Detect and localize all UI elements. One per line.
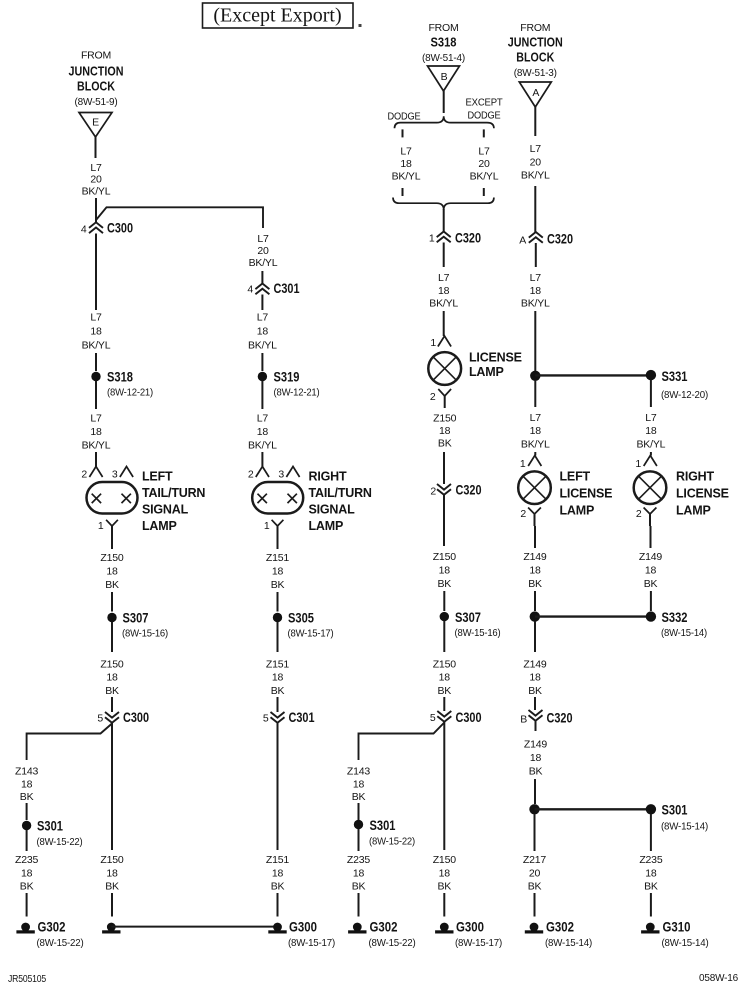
wire bbox=[650, 591, 652, 611]
svg-text:Z149: Z149 bbox=[523, 659, 546, 671]
pin 2 entry bbox=[256, 467, 269, 478]
pin 3 entry bbox=[286, 467, 299, 478]
wire bbox=[534, 779, 536, 804]
svg-text:(8W-15-14): (8W-15-14) bbox=[661, 627, 707, 639]
wire to S301 bbox=[535, 808, 651, 810]
svg-text:S301: S301 bbox=[662, 802, 688, 818]
splice S305 bbox=[273, 613, 282, 622]
svg-text:(8W-51-3): (8W-51-3) bbox=[514, 67, 557, 79]
wire branch to S301 left bbox=[27, 724, 112, 761]
svg-text:20: 20 bbox=[257, 245, 269, 257]
wire bbox=[261, 452, 263, 467]
svg-text:SIGNAL: SIGNAL bbox=[309, 503, 356, 517]
wire bbox=[534, 526, 536, 548]
splice junction bbox=[529, 804, 539, 814]
svg-text:Z150: Z150 bbox=[100, 659, 123, 671]
svg-text:20: 20 bbox=[478, 158, 490, 170]
ground G310 bbox=[646, 923, 655, 932]
wire bbox=[261, 353, 263, 371]
svg-text:B: B bbox=[441, 71, 448, 83]
svg-text:Z235: Z235 bbox=[15, 854, 38, 866]
svg-text:18: 18 bbox=[645, 564, 657, 576]
title box bbox=[203, 3, 354, 28]
wire bbox=[534, 452, 536, 456]
connector triangle B bbox=[428, 66, 460, 91]
pin 1 entry bbox=[644, 456, 657, 467]
svg-text:1: 1 bbox=[430, 337, 436, 349]
svg-text:BK/YL: BK/YL bbox=[521, 298, 550, 310]
svg-text:RIGHT: RIGHT bbox=[309, 470, 347, 484]
svg-text:1: 1 bbox=[264, 520, 270, 532]
wire bbox=[261, 271, 263, 283]
wire bbox=[95, 381, 97, 409]
connector C320 pin B bbox=[529, 710, 543, 721]
svg-text:L7: L7 bbox=[530, 272, 542, 284]
svg-text:18: 18 bbox=[439, 425, 451, 437]
svg-text:Z151: Z151 bbox=[266, 659, 289, 671]
svg-text:JUNCTION: JUNCTION bbox=[508, 36, 563, 50]
svg-text:A: A bbox=[519, 235, 526, 247]
svg-text:(8W-15-16): (8W-15-16) bbox=[122, 628, 168, 640]
svg-text:S319: S319 bbox=[274, 369, 300, 385]
wire bbox=[26, 893, 28, 917]
svg-text:BK: BK bbox=[437, 578, 451, 590]
wire bbox=[650, 380, 652, 407]
svg-text:BK/YL: BK/YL bbox=[248, 439, 277, 451]
svg-text:(8W-51-9): (8W-51-9) bbox=[75, 96, 118, 108]
svg-text:058W-16: 058W-16 bbox=[699, 972, 738, 984]
svg-text:18: 18 bbox=[439, 672, 451, 684]
wire bbox=[26, 803, 28, 820]
splice S307 bbox=[440, 612, 449, 621]
period mark bbox=[359, 24, 362, 27]
svg-text:Z150: Z150 bbox=[433, 551, 456, 563]
svg-text:BLOCK: BLOCK bbox=[77, 80, 115, 94]
wire to S332 bbox=[535, 615, 651, 617]
svg-text:1: 1 bbox=[429, 233, 435, 245]
svg-text:E: E bbox=[92, 117, 99, 129]
wire bbox=[650, 526, 652, 548]
svg-text:BK/YL: BK/YL bbox=[248, 340, 277, 352]
svg-text:BK/YL: BK/YL bbox=[637, 438, 666, 450]
svg-text:S301: S301 bbox=[370, 817, 396, 833]
svg-text:1: 1 bbox=[98, 520, 104, 532]
svg-text:18: 18 bbox=[272, 565, 284, 577]
svg-text:C300: C300 bbox=[456, 709, 482, 725]
svg-text:18: 18 bbox=[439, 564, 451, 576]
svg-text:BK: BK bbox=[352, 791, 366, 803]
svg-text:Z150: Z150 bbox=[433, 413, 456, 425]
svg-text:18: 18 bbox=[106, 565, 118, 577]
svg-text:Z235: Z235 bbox=[639, 854, 662, 866]
wire bbox=[650, 452, 652, 456]
svg-text:JR505105: JR505105 bbox=[8, 973, 46, 985]
svg-text:LAMP: LAMP bbox=[560, 504, 595, 518]
wire branch to S301 left bbox=[359, 723, 445, 761]
wire bbox=[443, 621, 445, 652]
svg-text:L7: L7 bbox=[530, 143, 542, 155]
svg-text:Z150: Z150 bbox=[100, 552, 123, 564]
svg-text:18: 18 bbox=[21, 778, 33, 790]
svg-text:Z151: Z151 bbox=[266, 854, 289, 866]
svg-text:DODGE: DODGE bbox=[388, 111, 421, 123]
svg-text:S305: S305 bbox=[288, 610, 314, 626]
wire bbox=[443, 495, 445, 546]
wire bbox=[443, 722, 445, 850]
svg-text:18: 18 bbox=[106, 672, 118, 684]
svg-text:BK: BK bbox=[644, 881, 658, 893]
svg-text:BK: BK bbox=[644, 578, 658, 590]
lamp LEFT TAIL/TURN SIGNAL LAMP bbox=[87, 482, 138, 514]
ground G302 bbox=[21, 923, 30, 932]
svg-text:G302: G302 bbox=[38, 919, 66, 935]
svg-text:5: 5 bbox=[430, 712, 436, 724]
svg-text:BK: BK bbox=[437, 685, 451, 697]
wire bbox=[443, 311, 445, 336]
wire bbox=[95, 452, 97, 467]
pin 2 exit bbox=[644, 508, 657, 515]
svg-text:18: 18 bbox=[90, 426, 102, 438]
wire bbox=[111, 723, 113, 850]
svg-text:2: 2 bbox=[520, 508, 526, 520]
svg-text:3: 3 bbox=[278, 469, 284, 481]
svg-text:20: 20 bbox=[529, 867, 541, 879]
wire bbox=[358, 893, 360, 917]
svg-text:L7: L7 bbox=[438, 272, 450, 284]
wire branch to C301 column bbox=[96, 207, 263, 228]
ground G302 bbox=[353, 923, 362, 932]
svg-text:18: 18 bbox=[400, 158, 412, 170]
svg-text:L7: L7 bbox=[478, 146, 490, 158]
wire bbox=[95, 234, 97, 311]
svg-text:(8W-15-17): (8W-15-17) bbox=[288, 628, 334, 640]
svg-text:FROM: FROM bbox=[81, 50, 111, 62]
svg-text:BK/YL: BK/YL bbox=[249, 257, 278, 269]
svg-text:G310: G310 bbox=[663, 919, 691, 935]
wire bbox=[95, 137, 97, 158]
svg-text:LEFT: LEFT bbox=[142, 470, 173, 484]
svg-text:EXCEPT: EXCEPT bbox=[466, 97, 504, 109]
svg-text:1: 1 bbox=[520, 458, 526, 470]
svg-text:BK/YL: BK/YL bbox=[470, 171, 499, 183]
svg-text:S318: S318 bbox=[107, 369, 133, 385]
svg-text:BK/YL: BK/YL bbox=[82, 439, 111, 451]
ground node bbox=[107, 923, 116, 932]
svg-text:G302: G302 bbox=[370, 919, 398, 935]
svg-text:Z149: Z149 bbox=[639, 551, 662, 563]
svg-text:G302: G302 bbox=[546, 919, 574, 935]
svg-text:18: 18 bbox=[645, 867, 657, 879]
wire bbox=[277, 526, 279, 549]
svg-text:18: 18 bbox=[106, 867, 118, 879]
svg-text:BK: BK bbox=[528, 881, 542, 893]
pin 2 entry bbox=[89, 467, 102, 478]
wire bbox=[277, 723, 279, 850]
svg-text:BK: BK bbox=[528, 578, 542, 590]
svg-text:C301: C301 bbox=[274, 280, 300, 296]
wire stub bbox=[402, 188, 404, 196]
svg-text:18: 18 bbox=[439, 867, 451, 879]
svg-text:L7: L7 bbox=[257, 312, 269, 324]
svg-text:(8W-15-22): (8W-15-22) bbox=[369, 937, 416, 949]
pin 1 exit bbox=[106, 520, 118, 526]
svg-text:C301: C301 bbox=[289, 709, 315, 725]
ground G300 bbox=[273, 923, 282, 932]
svg-text:18: 18 bbox=[257, 426, 269, 438]
wire bbox=[650, 814, 652, 851]
svg-text:(8W-12-20): (8W-12-20) bbox=[661, 389, 708, 401]
svg-text:C300: C300 bbox=[107, 220, 133, 236]
svg-text:(Except Export): (Except Export) bbox=[213, 5, 341, 27]
svg-text:BK/YL: BK/YL bbox=[82, 340, 111, 352]
lamp RIGHT LICENSE LAMP bbox=[634, 471, 667, 504]
wire bbox=[111, 697, 113, 712]
svg-text:C320: C320 bbox=[456, 482, 482, 498]
svg-text:L7: L7 bbox=[400, 146, 412, 158]
svg-text:G300: G300 bbox=[289, 919, 317, 935]
connector C300 pin 5 bbox=[437, 711, 451, 722]
svg-text:C320: C320 bbox=[547, 231, 573, 247]
wire bbox=[534, 186, 536, 232]
wire bbox=[261, 295, 263, 311]
wire bbox=[111, 893, 113, 917]
svg-text:(8W-15-22): (8W-15-22) bbox=[37, 836, 83, 848]
svg-text:DODGE: DODGE bbox=[468, 110, 501, 122]
svg-text:L7: L7 bbox=[530, 412, 542, 424]
svg-text:BK: BK bbox=[528, 685, 542, 697]
wire to S331 bbox=[535, 374, 651, 376]
svg-text:LAMP: LAMP bbox=[142, 519, 177, 533]
svg-text:S332: S332 bbox=[662, 609, 688, 625]
wire bbox=[26, 830, 28, 851]
svg-text:BK: BK bbox=[20, 881, 34, 893]
svg-text:(8W-15-17): (8W-15-17) bbox=[288, 937, 335, 949]
wire bbox=[358, 803, 360, 820]
splice S331 bbox=[646, 370, 656, 380]
splice S332 bbox=[646, 611, 656, 621]
svg-text:TAIL/TURN: TAIL/TURN bbox=[309, 486, 372, 500]
wire bbox=[443, 209, 445, 232]
wire bbox=[534, 621, 536, 652]
connector triangle E bbox=[79, 113, 112, 138]
connector C320 pin 1 bbox=[437, 232, 451, 243]
wire bbox=[358, 829, 360, 851]
svg-text:BK/YL: BK/YL bbox=[392, 171, 421, 183]
svg-text:BLOCK: BLOCK bbox=[516, 51, 554, 65]
svg-text:2: 2 bbox=[430, 391, 436, 403]
svg-text:BK: BK bbox=[438, 438, 452, 450]
connector C300 pin 5 bbox=[105, 712, 119, 723]
wire bbox=[111, 526, 113, 549]
wire bbox=[443, 893, 445, 917]
svg-text:BK: BK bbox=[437, 881, 451, 893]
svg-text:LAMP: LAMP bbox=[676, 504, 711, 518]
wire bbox=[535, 721, 537, 731]
svg-text:3: 3 bbox=[112, 469, 118, 481]
svg-text:(8W-15-14): (8W-15-14) bbox=[662, 937, 709, 949]
svg-text:18: 18 bbox=[21, 867, 33, 879]
svg-text:FROM: FROM bbox=[520, 22, 550, 34]
svg-text:BK: BK bbox=[271, 579, 285, 591]
svg-text:(8W-51-4): (8W-51-4) bbox=[422, 52, 465, 64]
splice junction bbox=[530, 371, 540, 381]
svg-text:18: 18 bbox=[353, 867, 365, 879]
svg-text:BK: BK bbox=[20, 791, 34, 803]
svg-text:BK/YL: BK/YL bbox=[82, 185, 111, 197]
wire bbox=[277, 697, 279, 712]
wire bbox=[650, 893, 652, 917]
wire bbox=[534, 697, 536, 710]
connector triangle A bbox=[519, 82, 551, 107]
svg-text:2: 2 bbox=[248, 469, 254, 481]
wire bbox=[277, 893, 279, 917]
wire bbox=[534, 893, 536, 917]
wire bbox=[534, 311, 536, 371]
ground G300 bbox=[440, 923, 449, 932]
wire bbox=[534, 814, 536, 851]
svg-text:Z149: Z149 bbox=[523, 551, 546, 563]
svg-text:Z151: Z151 bbox=[266, 552, 289, 564]
wire bbox=[261, 381, 263, 409]
svg-text:LAMP: LAMP bbox=[309, 519, 344, 533]
svg-text:BK/YL: BK/YL bbox=[521, 438, 550, 450]
svg-text:B: B bbox=[520, 714, 527, 726]
svg-text:S307: S307 bbox=[123, 610, 149, 626]
splice S318 bbox=[91, 372, 100, 381]
connector C300 pin 4 bbox=[89, 222, 103, 233]
svg-text:LEFT: LEFT bbox=[560, 470, 591, 484]
svg-text:4: 4 bbox=[247, 284, 253, 296]
svg-text:5: 5 bbox=[97, 713, 103, 725]
svg-text:BK: BK bbox=[105, 579, 119, 591]
svg-text:18: 18 bbox=[90, 326, 102, 338]
svg-text:BK/YL: BK/YL bbox=[429, 298, 458, 310]
svg-text:18: 18 bbox=[529, 564, 541, 576]
pin 1 exit bbox=[272, 520, 284, 526]
svg-text:(8W-15-16): (8W-15-16) bbox=[455, 627, 501, 639]
svg-text:20: 20 bbox=[530, 156, 542, 168]
svg-text:BK: BK bbox=[352, 881, 366, 893]
lamp LEFT LICENSE LAMP bbox=[518, 471, 551, 504]
splice S301 bbox=[354, 820, 363, 829]
svg-text:4: 4 bbox=[81, 224, 87, 236]
pin 1 entry bbox=[528, 456, 541, 467]
svg-text:2: 2 bbox=[81, 469, 87, 481]
wire bbox=[443, 452, 445, 484]
svg-text:L7: L7 bbox=[90, 312, 102, 324]
svg-text:L7: L7 bbox=[645, 412, 657, 424]
svg-text:Z149: Z149 bbox=[524, 739, 547, 751]
svg-text:(8W-12-21): (8W-12-21) bbox=[274, 387, 320, 399]
svg-text:20: 20 bbox=[90, 174, 102, 186]
svg-text:5: 5 bbox=[263, 713, 269, 725]
svg-text:BK: BK bbox=[105, 685, 119, 697]
svg-text:18: 18 bbox=[530, 285, 542, 297]
svg-text:C300: C300 bbox=[123, 709, 149, 725]
svg-text:Z217: Z217 bbox=[523, 854, 546, 866]
wire bbox=[443, 697, 445, 711]
wire bbox=[95, 353, 97, 371]
splice S319 bbox=[258, 372, 267, 381]
split brace upper bbox=[395, 116, 494, 128]
svg-text:Z150: Z150 bbox=[433, 854, 456, 866]
svg-text:18: 18 bbox=[272, 672, 284, 684]
wire bbox=[534, 380, 536, 407]
svg-text:Z143: Z143 bbox=[15, 766, 38, 778]
svg-text:(8W-15-22): (8W-15-22) bbox=[37, 937, 84, 949]
svg-text:LAMP: LAMP bbox=[469, 365, 504, 379]
svg-text:1: 1 bbox=[635, 458, 641, 470]
svg-text:SIGNAL: SIGNAL bbox=[142, 503, 189, 517]
svg-text:(8W-12-21): (8W-12-21) bbox=[107, 387, 153, 399]
svg-text:S307: S307 bbox=[455, 609, 481, 625]
svg-text:18: 18 bbox=[353, 778, 365, 790]
wire stub bbox=[483, 129, 485, 137]
splice S301 bbox=[22, 821, 31, 830]
svg-text:2: 2 bbox=[430, 486, 436, 498]
svg-text:L7: L7 bbox=[90, 413, 102, 425]
svg-text:JUNCTION: JUNCTION bbox=[69, 65, 124, 79]
wire bbox=[443, 243, 445, 268]
svg-text:18: 18 bbox=[530, 752, 542, 764]
svg-text:18: 18 bbox=[645, 425, 657, 437]
svg-text:LICENSE: LICENSE bbox=[560, 487, 613, 501]
svg-text:Z150: Z150 bbox=[100, 854, 123, 866]
wire bbox=[534, 591, 536, 611]
svg-text:RIGHT: RIGHT bbox=[676, 470, 714, 484]
merge brace lower bbox=[393, 198, 494, 210]
svg-text:18: 18 bbox=[438, 285, 450, 297]
svg-text:G300: G300 bbox=[456, 919, 484, 935]
connector C320 pin A bbox=[529, 232, 543, 243]
svg-text:(8W-15-17): (8W-15-17) bbox=[455, 937, 502, 949]
lamp LICENSE LAMP bbox=[428, 352, 461, 385]
connector C301 pin 4 bbox=[255, 284, 269, 295]
svg-text:BK: BK bbox=[271, 881, 285, 893]
pin 2 exit bbox=[438, 389, 451, 396]
pin 1 entry bbox=[438, 336, 451, 347]
svg-text:18: 18 bbox=[272, 867, 284, 879]
svg-text:Z150: Z150 bbox=[433, 659, 456, 671]
svg-text:18: 18 bbox=[257, 326, 269, 338]
svg-text:L7: L7 bbox=[90, 162, 102, 174]
svg-text:BK: BK bbox=[529, 765, 543, 777]
pin 3 entry bbox=[120, 467, 133, 478]
connector C320 pin 2 bbox=[437, 484, 451, 495]
svg-text:S331: S331 bbox=[662, 368, 688, 384]
wire stub bbox=[483, 188, 485, 196]
svg-text:Z235: Z235 bbox=[347, 854, 370, 866]
svg-text:BK/YL: BK/YL bbox=[521, 170, 550, 182]
ground G302 bbox=[530, 923, 539, 932]
svg-text:S301: S301 bbox=[37, 818, 63, 834]
wire bbox=[277, 592, 279, 612]
connector C301 pin 5 bbox=[271, 712, 285, 723]
svg-text:2: 2 bbox=[636, 508, 642, 520]
wire bbox=[534, 107, 536, 136]
svg-text:L7: L7 bbox=[257, 413, 269, 425]
wire stub bbox=[402, 129, 404, 137]
svg-text:BK: BK bbox=[271, 685, 285, 697]
svg-text:18: 18 bbox=[530, 425, 542, 437]
wire bbox=[443, 591, 445, 611]
svg-text:S318: S318 bbox=[431, 36, 457, 50]
svg-text:TAIL/TURN: TAIL/TURN bbox=[142, 486, 205, 500]
wire bbox=[111, 622, 113, 652]
svg-text:FROM: FROM bbox=[428, 22, 458, 34]
svg-text:(8W-15-14): (8W-15-14) bbox=[545, 937, 592, 949]
wire bbox=[277, 622, 279, 652]
